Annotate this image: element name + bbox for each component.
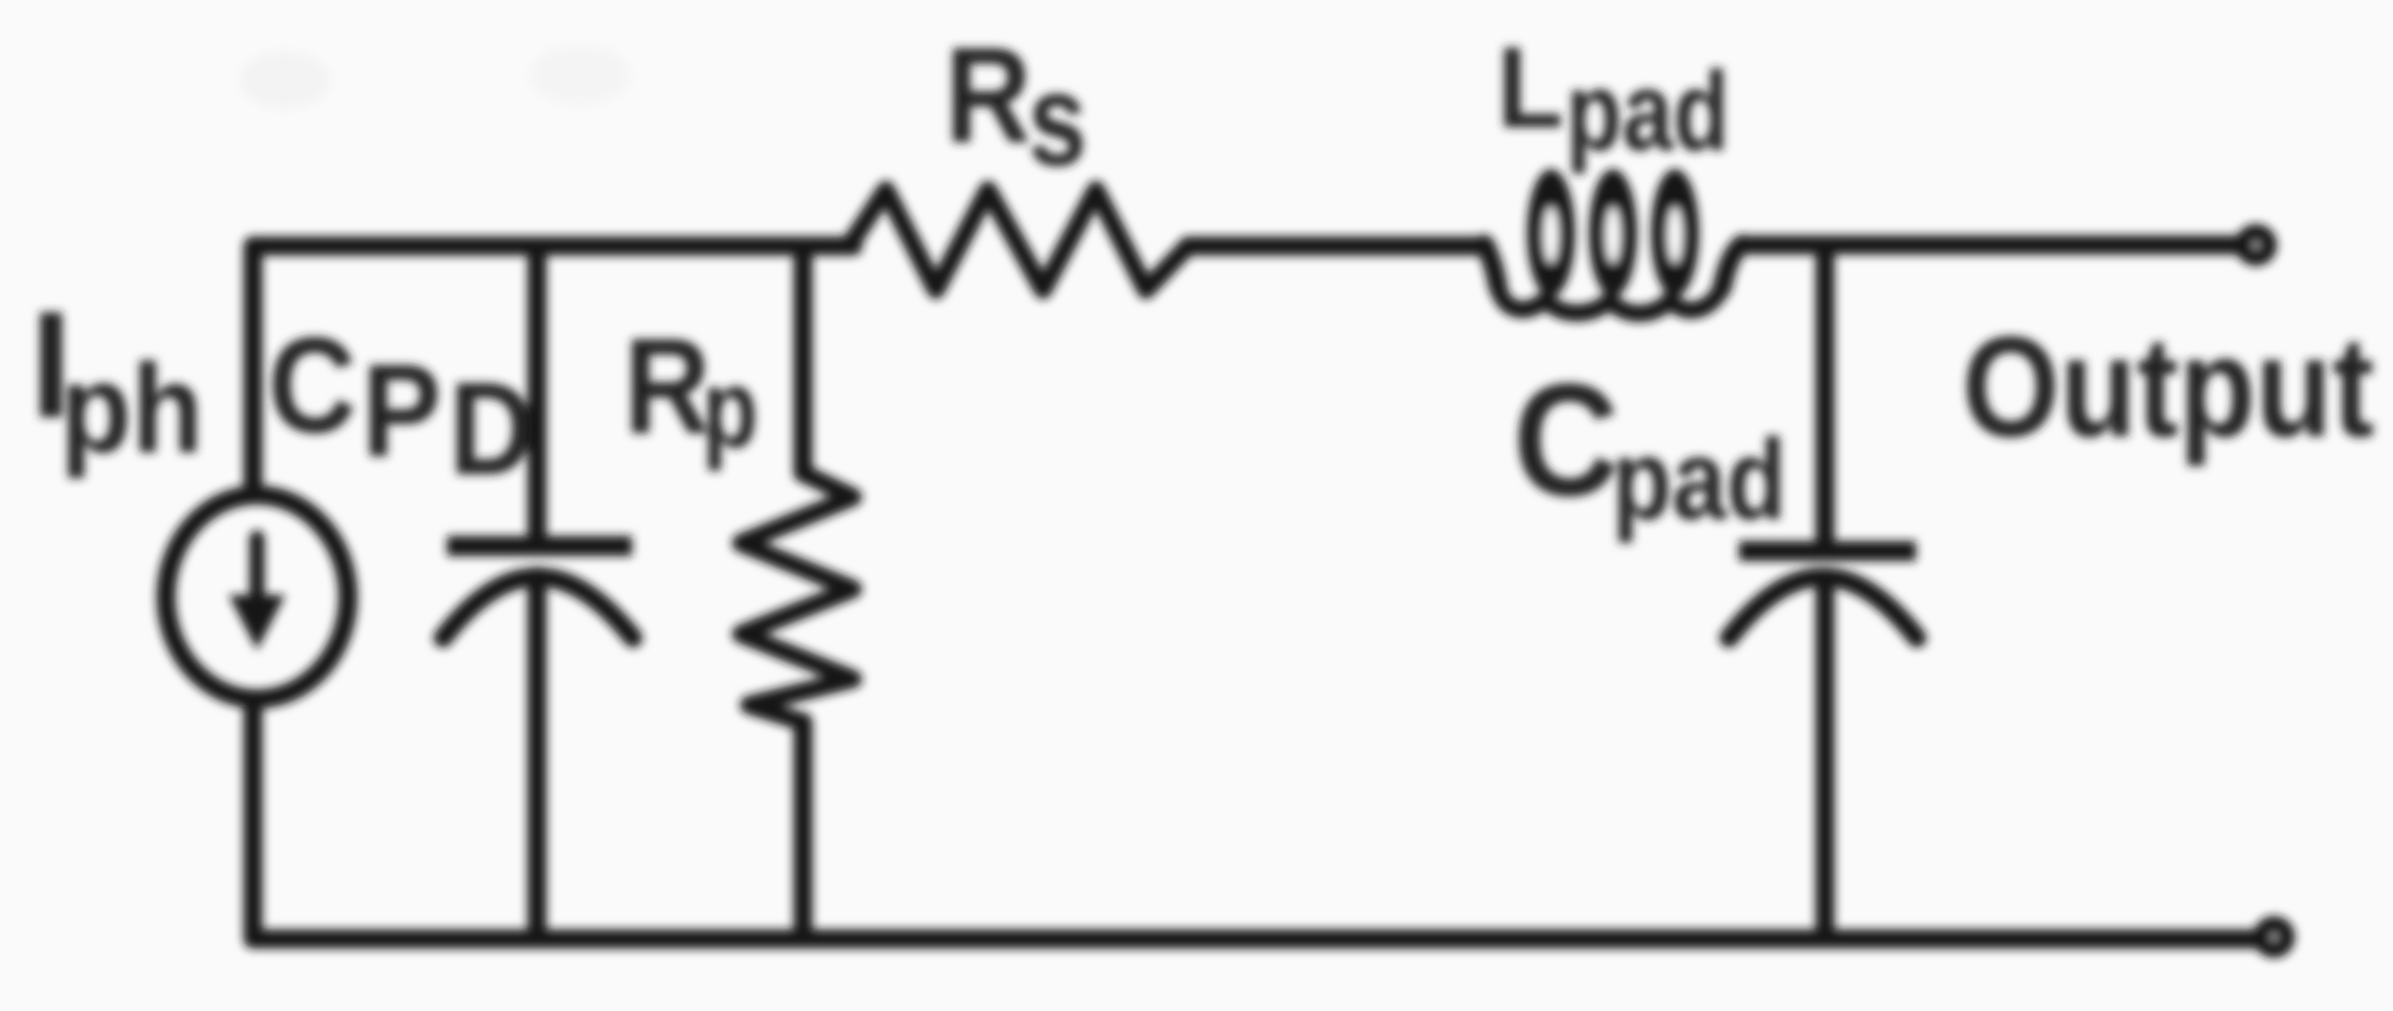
inductor L_pad right step	[1722, 244, 1742, 288]
resistor R_s zigzag	[849, 190, 1188, 290]
wire left vertical upper (source to top node)	[244, 246, 263, 492]
svg-text:L: L	[1497, 22, 1564, 151]
svg-text:D: D	[449, 354, 535, 502]
capacitor C_PD curved plate	[443, 577, 633, 638]
resistor R_p zigzag	[741, 473, 853, 722]
svg-text:pad: pad	[1612, 416, 1786, 544]
capacitor C_PD lower lead	[528, 576, 547, 939]
inductor L_pad loop 3	[1651, 169, 1699, 297]
output terminal top dot	[2235, 224, 2277, 266]
wire left vertical lower (source to bottom node)	[244, 704, 263, 939]
current source arrow head	[229, 595, 285, 650]
faint scan smudge left	[240, 52, 330, 108]
svg-text:s: s	[1028, 47, 1087, 194]
capacitor C_pad top plate	[1739, 541, 1916, 561]
wire top-right (Lpad to output terminal)	[1748, 236, 2256, 255]
resistor R_p bottom lead	[794, 722, 813, 939]
resistor R_p top lead	[794, 246, 813, 473]
inductor L_pad bottom scallops	[1498, 287, 1722, 314]
capacitor C_pad curved plate	[1729, 577, 1917, 638]
svg-text:Output: Output	[1962, 306, 2374, 466]
svg-text:pad: pad	[1566, 48, 1729, 174]
inductor L_pad loop 2	[1589, 169, 1637, 297]
output terminal bottom dot	[2253, 916, 2295, 958]
inductor L_pad loop 3 inner	[1668, 207, 1682, 263]
svg-text:C: C	[1513, 350, 1619, 529]
svg-text:C: C	[268, 310, 356, 461]
faint scan smudge right	[530, 45, 630, 105]
svg-text:ph: ph	[60, 338, 203, 479]
svg-text:R: R	[945, 20, 1031, 172]
wire top-middle (Rs to Lpad)	[1188, 237, 1486, 256]
capacitor C_PD top plate	[447, 536, 632, 556]
svg-text:P: P	[362, 336, 441, 484]
inductor L_pad loop 2 inner	[1606, 207, 1620, 263]
inductor L_pad loop 1	[1527, 169, 1575, 297]
wire bottom rail	[253, 930, 2274, 949]
svg-text:p: p	[702, 345, 758, 471]
svg-text:R: R	[624, 311, 710, 463]
capacitor C_pad top lead	[1816, 245, 1835, 542]
capacitor C_pad lower lead	[1816, 580, 1835, 939]
wire top-left horizontal (node: source top)	[253, 237, 853, 256]
current source arrow shaft	[250, 538, 265, 596]
current source I_ph circle	[166, 495, 348, 699]
inductor L_pad left step	[1484, 244, 1498, 287]
inductor L_pad loop 1 inner	[1544, 207, 1558, 263]
capacitor C_PD top lead	[528, 246, 547, 538]
